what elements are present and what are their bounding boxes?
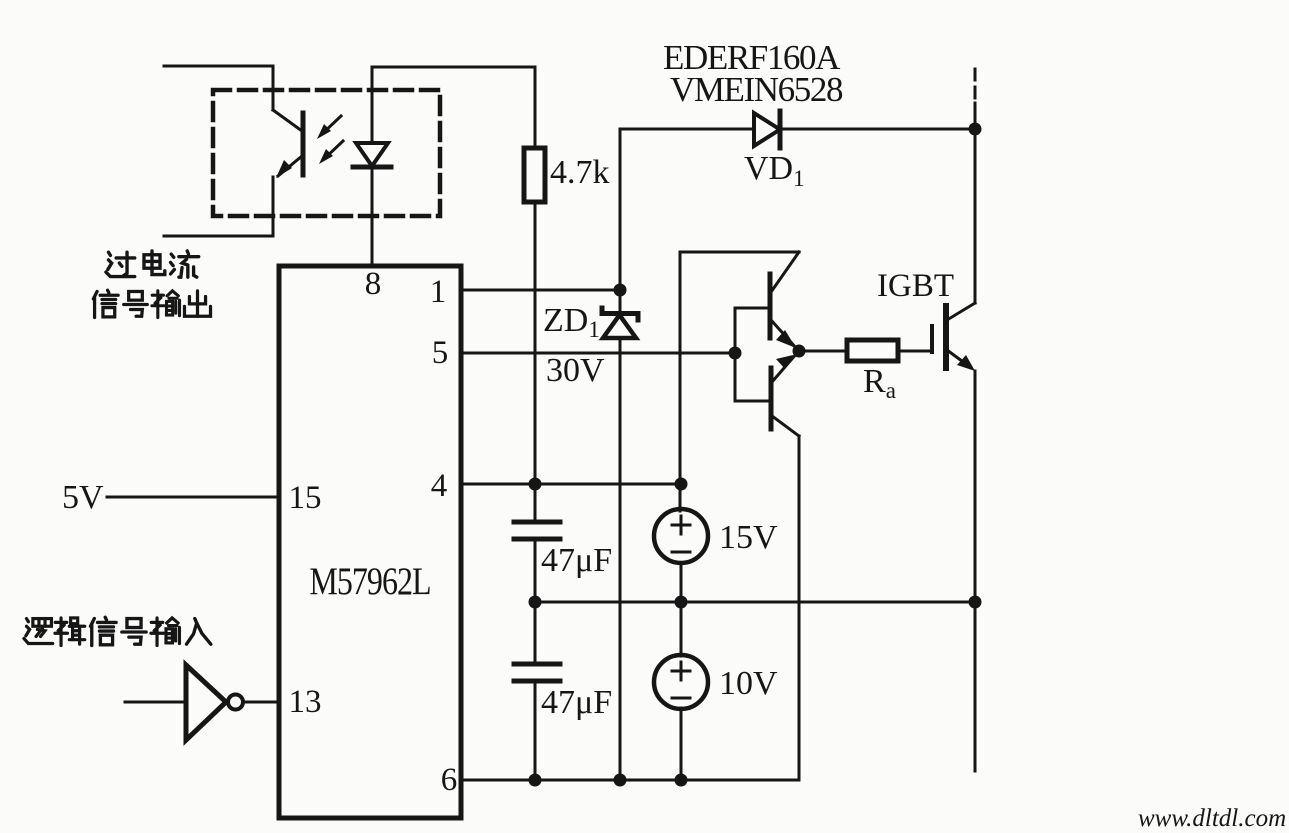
- svg-text:5: 5: [432, 335, 449, 371]
- node: midrail/IGBT emitter junction: [969, 596, 982, 609]
- node: pin4/15V junction: [675, 478, 688, 491]
- wire: output node to Ra: [799, 350, 847, 353]
- node: emitter output node: [793, 345, 806, 358]
- wire: push-pull top rail: [680, 251, 799, 254]
- wire: LED to pin 8: [371, 167, 374, 266]
- svg-text:47μF: 47μF: [541, 542, 612, 579]
- wire: pin 15 5V input: [107, 496, 279, 499]
- wire: phototransistor collector diagonal: [273, 110, 302, 131]
- wire: pin 5: [461, 352, 735, 355]
- light arrow 2: [324, 141, 343, 159]
- svg-text:1: 1: [430, 274, 447, 310]
- svg-text:M57962L: M57962L: [309, 559, 430, 603]
- IC U1 M57962L body: [279, 266, 461, 818]
- IGBT VT1: [930, 326, 934, 352]
- svg-text:VMEIN6528: VMEIN6528: [670, 70, 843, 109]
- node: VD1/IGBT collector junction: [969, 123, 982, 136]
- wire: IGBT emitter down: [974, 371, 977, 771]
- capacitor C2 47uF: [534, 602, 537, 662]
- LED D2 of optocoupler: [371, 67, 374, 143]
- zener diode ZD1: [619, 290, 622, 315]
- wire: pin 6: [461, 436, 799, 780]
- wire: supply mid vertical x=680: [679, 252, 682, 511]
- node: base junction: [729, 347, 742, 360]
- battery B2 10V: [680, 602, 683, 656]
- wire: zener anode down to pin 6 rail: [619, 338, 622, 780]
- wire: VD1 horizontal rail: [620, 128, 754, 131]
- wire: collector dashed continuation: [974, 69, 977, 103]
- svg-text:13: 13: [289, 684, 322, 720]
- node: 10V/pin6 junction: [675, 774, 688, 787]
- diode VD1: [754, 113, 780, 146]
- node: C2/pin6 junction: [529, 774, 542, 787]
- resistor Ra: [847, 340, 898, 361]
- phototransistor Q3 bar: [301, 113, 306, 175]
- svg-text:www.dltdl.com: www.dltdl.com: [1138, 805, 1286, 832]
- wire: phototransistor emitter with arrow: [278, 156, 302, 176]
- wire: base bracket: [735, 308, 770, 401]
- transistor Q1 (upper NPN): [771, 252, 799, 292]
- label: overcurrent signal output (Chinese) row 2: [93, 290, 118, 317]
- label: logic signal input (Chinese): [24, 619, 53, 644]
- wire: Ra to gate: [898, 350, 932, 353]
- node: C1/C2 midrail junction: [529, 596, 542, 609]
- wire: IGBT collector up: [974, 129, 977, 303]
- svg-text:15V: 15V: [719, 519, 778, 556]
- node: pin1/ZD1/VD1 junction: [614, 284, 627, 297]
- wire: pin 13: [243, 701, 279, 704]
- svg-text:10V: 10V: [719, 665, 778, 702]
- light arrow 1: [322, 116, 341, 134]
- svg-text:IGBT: IGBT: [877, 268, 954, 304]
- svg-text:4: 4: [431, 468, 448, 504]
- wire: overcurrent output top lead: [164, 66, 273, 110]
- wire: pin 4: [461, 483, 681, 486]
- svg-text:5V: 5V: [62, 479, 104, 516]
- svg-text:47μF: 47μF: [541, 684, 612, 721]
- wire: top rail to resistor: [372, 67, 535, 148]
- optocoupler dashed box U2: [213, 90, 440, 216]
- wire: overcurrent output bottom lead: [164, 177, 273, 236]
- inverter U3: [125, 701, 186, 704]
- svg-text:15: 15: [289, 480, 322, 516]
- svg-text:6: 6: [441, 762, 458, 798]
- svg-text:8: 8: [365, 266, 382, 302]
- wire: pin 1: [461, 289, 620, 292]
- wire: VD1 branch vertical: [619, 129, 622, 290]
- node: battery midrail junction: [675, 596, 688, 609]
- svg-text:30V: 30V: [546, 352, 605, 389]
- wire: resistor down to pin4 node: [534, 202, 537, 484]
- node: pin4/C1 junction: [529, 478, 542, 491]
- resistor R1 4.7k: [524, 148, 545, 202]
- node: ZD1/pin6 junction: [614, 774, 627, 787]
- wire: middle rail: [535, 601, 975, 604]
- transistor Q2 (lower PNP): [769, 368, 774, 429]
- battery B1 15V: [680, 563, 683, 602]
- capacitor C1 47uF: [534, 484, 537, 520]
- label: overcurrent signal output (Chinese) row 1: [106, 252, 135, 276]
- svg-text:4.7k: 4.7k: [550, 154, 610, 191]
